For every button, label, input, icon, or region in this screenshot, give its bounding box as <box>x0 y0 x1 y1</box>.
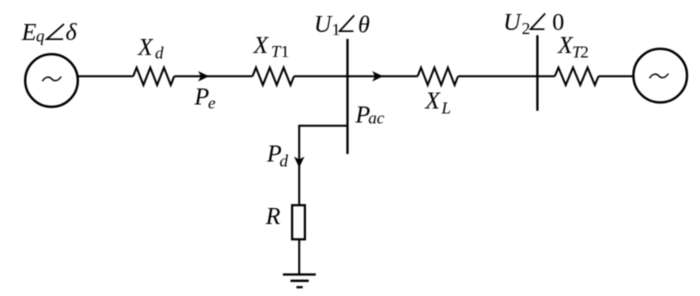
svg-text:c: c <box>377 109 385 128</box>
svg-text:q: q <box>36 27 45 46</box>
svg-text:2: 2 <box>522 19 531 38</box>
svg-text:X: X <box>253 33 270 59</box>
svg-text:1: 1 <box>332 20 341 39</box>
svg-text:e: e <box>208 94 216 113</box>
svg-text:d: d <box>155 43 164 62</box>
svg-text:2: 2 <box>580 42 589 61</box>
svg-text:R: R <box>265 204 281 230</box>
svg-text:U: U <box>503 10 522 36</box>
svg-text:d: d <box>280 152 289 171</box>
svg-text:δ: δ <box>66 20 78 46</box>
svg-text:1: 1 <box>281 42 290 61</box>
svg-text:U: U <box>314 12 333 38</box>
svg-text:L: L <box>441 99 451 118</box>
svg-text:X: X <box>137 35 154 61</box>
svg-text:a: a <box>368 109 377 128</box>
svg-text:E: E <box>21 20 37 46</box>
svg-text:X: X <box>424 88 441 114</box>
svg-text:θ: θ <box>358 12 370 38</box>
